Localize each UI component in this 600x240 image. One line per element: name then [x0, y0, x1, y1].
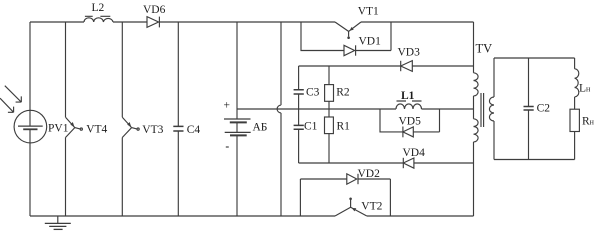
- svg-text:VD4: VD4: [403, 147, 426, 159]
- svg-text:-: -: [225, 141, 229, 153]
- wire bottom bus right: [367, 215, 474, 217]
- svg-text:VD5: VD5: [399, 115, 422, 127]
- photocell PV1: [14, 110, 47, 143]
- transistor VT4 rail: [65, 22, 67, 117]
- node PV1 rail: [29, 22, 31, 216]
- transistor VT1: [335, 22, 361, 31]
- svg-text:TV: TV: [476, 42, 493, 56]
- svg-text:Rн: Rн: [582, 116, 595, 128]
- svg-text:L2: L2: [92, 2, 105, 14]
- diode VD3: [400, 61, 402, 71]
- transistor VT4: [66, 117, 75, 216]
- svg-text:VD6: VD6: [143, 4, 166, 16]
- inductor Lh: [574, 58, 576, 69]
- resistor Rh: [570, 109, 579, 131]
- svg-text:R2: R2: [336, 87, 350, 99]
- diode VD4: [402, 158, 404, 168]
- transformer TV secondary: [493, 58, 495, 97]
- svg-text:R1: R1: [337, 121, 351, 133]
- wire VD3 bus y66: [299, 65, 401, 67]
- transformer core: [481, 93, 484, 127]
- diode VD2 branch: [299, 179, 301, 216]
- svg-text:VT3: VT3: [142, 124, 163, 136]
- resistor R1: [325, 117, 334, 134]
- svg-text:C4: C4: [187, 124, 201, 136]
- light arrow 2: [0, 98, 14, 112]
- inductor L1: [396, 104, 422, 109]
- svg-text:Lн: Lн: [579, 82, 591, 94]
- wire top bus mid: [113, 21, 147, 23]
- wire L1 to transformer: [422, 108, 474, 110]
- svg-text:C2: C2: [537, 103, 551, 115]
- transistor VT3: [122, 117, 131, 216]
- wire top bus right: [361, 21, 474, 23]
- capacitor C2: [528, 58, 530, 106]
- capacitor C4: [177, 22, 179, 126]
- wire VD4 bus y163: [299, 162, 404, 164]
- diode VD1 branch: [301, 22, 344, 51]
- svg-text:VD2: VD2: [358, 168, 381, 180]
- svg-text:АБ: АБ: [253, 122, 268, 134]
- transistor VT2: [335, 207, 367, 216]
- svg-text:L1: L1: [401, 90, 415, 102]
- diode VD5 branch: [380, 109, 403, 132]
- light arrow 1: [5, 86, 22, 102]
- node rail with hop: [277, 22, 281, 216]
- svg-text:+: +: [224, 100, 231, 112]
- svg-text:C3: C3: [306, 86, 320, 98]
- wire top bus left: [30, 21, 84, 23]
- svg-text:VD3: VD3: [398, 47, 421, 59]
- wire bottom bus left: [30, 215, 335, 217]
- diode VD6: [147, 17, 159, 28]
- wire top bus to VT1: [159, 21, 335, 23]
- transformer TV primary: [473, 22, 475, 73]
- svg-text:C1: C1: [304, 120, 318, 132]
- ground: [57, 216, 59, 223]
- svg-text:VT2: VT2: [361, 201, 382, 213]
- inductor L2: [84, 18, 113, 22]
- load rectangle: [494, 57, 575, 59]
- transistor VT3 rail: [121, 22, 123, 117]
- svg-text:VT1: VT1: [358, 6, 379, 18]
- wire battery tap y109: [237, 108, 396, 110]
- capacitor C3: [298, 66, 300, 90]
- svg-text:VT4: VT4: [86, 123, 107, 135]
- svg-text:PV1: PV1: [48, 122, 69, 134]
- battery AB: [236, 22, 238, 119]
- svg-text:VD1: VD1: [359, 36, 382, 48]
- capacitor C1: [294, 125, 304, 129]
- resistor R2: [328, 66, 330, 85]
